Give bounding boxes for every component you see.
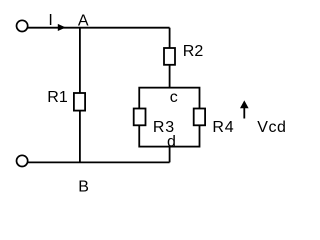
svg-text:R1: R1 <box>47 89 68 106</box>
svg-text:I: I <box>48 12 52 29</box>
svg-text:Vcd: Vcd <box>257 119 286 136</box>
svg-text:c: c <box>170 89 178 106</box>
svg-text:B: B <box>78 178 89 195</box>
svg-text:R2: R2 <box>183 43 204 60</box>
svg-text:R4: R4 <box>212 119 234 136</box>
svg-text:d: d <box>167 133 176 150</box>
svg-text:A: A <box>78 13 89 30</box>
